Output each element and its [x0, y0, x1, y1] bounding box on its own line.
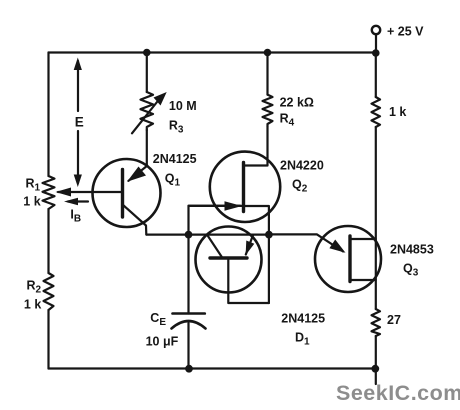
junction node top R3 — [143, 49, 151, 57]
wire left rail lower — [47, 310, 49, 369]
voltage arrow E line lower — [77, 131, 79, 183]
arrowhead Q3 gate — [329, 240, 345, 253]
wire R3 branch top — [146, 53, 148, 93]
diode-connected transistor D1 body — [196, 227, 262, 293]
svg-text:27: 27 — [387, 313, 401, 327]
junction node top R4 — [264, 49, 272, 57]
svg-text:10 μF: 10 μF — [146, 335, 179, 349]
wire node row (Q1 collector to node B) — [147, 234, 269, 236]
wire Q3 gate from node B — [269, 234, 343, 251]
wire R4 to Q2 drain — [244, 127, 268, 166]
arrowhead R3 variable — [154, 92, 167, 106]
wire CE branch lower — [187, 323, 189, 369]
transistor Q1 collector lead — [123, 205, 147, 235]
diode D1 collector lead — [207, 235, 222, 257]
junction node B — [265, 231, 273, 239]
svg-text:1 k: 1 k — [24, 298, 41, 312]
resistor 27 zigzag — [372, 309, 381, 336]
svg-text:+ 25 V: + 25 V — [387, 25, 424, 39]
arrowhead Q2 gate — [225, 201, 243, 210]
svg-text:10 M: 10 M — [169, 99, 197, 113]
svg-text:2N4125: 2N4125 — [281, 312, 325, 326]
wire left rail middle — [47, 209, 49, 273]
junction node A — [185, 231, 193, 239]
arrowhead E top — [74, 58, 82, 71]
arrowhead E bottom — [74, 175, 82, 188]
capacitor CE curved plate — [172, 321, 206, 329]
resistor R2 zigzag — [44, 273, 54, 310]
diode D1 emitter lead — [246, 235, 253, 255]
voltage arrow E line upper — [77, 61, 79, 111]
wire left rail upper — [47, 53, 49, 177]
wire right rail through Q3 — [375, 127, 377, 309]
transistor Q1 emitter lead — [129, 166, 148, 181]
svg-text:2N4125: 2N4125 — [153, 152, 197, 166]
diode D1 base bar — [210, 256, 247, 259]
wire D1 base return — [228, 259, 269, 303]
transistor Q3 drain lead — [350, 238, 376, 240]
wire bottom rail — [49, 367, 376, 369]
wire right rail bottom + stub — [375, 336, 377, 384]
transistor Q1 body — [93, 159, 161, 227]
svg-text:22 kΩ: 22 kΩ — [280, 96, 314, 110]
variable resistor R3 zigzag — [141, 92, 154, 130]
junction node bottom right — [371, 365, 379, 373]
arrowhead R1 wiper — [56, 188, 72, 197]
svg-text:2N4220: 2N4220 — [280, 159, 324, 173]
wire CE branch upper — [187, 235, 189, 314]
svg-text:SeekIC.com: SeekIC.com — [336, 381, 460, 405]
svg-text:E: E — [75, 115, 84, 130]
power terminal +25V — [372, 26, 380, 34]
transistor Q3 channel bar — [348, 236, 351, 282]
wire top rail — [49, 51, 376, 53]
svg-text:1 k: 1 k — [389, 105, 406, 119]
svg-text:1 k: 1 k — [23, 195, 40, 209]
transistor Q3 source lead — [350, 279, 376, 281]
arrowhead IB — [64, 198, 78, 205]
wire right rail upper — [375, 53, 377, 98]
resistor 1k right zigzag — [372, 97, 381, 127]
wire Q2 source drop / D1 right riser — [244, 206, 269, 303]
wire Q2 gate riser — [189, 206, 241, 235]
wire R4 branch top — [266, 53, 268, 95]
current arrow IB line — [68, 200, 88, 202]
capacitor CE top plate — [173, 312, 205, 315]
transistor Q3 body — [315, 226, 381, 292]
transistor Q1 base lead — [58, 191, 121, 193]
junction node bottom CE — [185, 365, 193, 373]
junction node top right — [372, 49, 380, 57]
variable resistor R3 arrow line — [132, 100, 159, 134]
wire R3 to Q1 emitter — [146, 130, 148, 166]
arrowhead D1 emitter — [246, 241, 255, 256]
arrowhead Q1 emitter — [127, 167, 146, 182]
resistor R1 zigzag — [43, 176, 55, 209]
transistor Q2 gate lead — [189, 205, 243, 207]
transistor Q2 channel bar — [242, 163, 245, 212]
svg-text:2N4853: 2N4853 — [390, 243, 434, 257]
resistor R4 zigzag — [263, 95, 273, 127]
transistor Q1 base bar — [121, 170, 124, 218]
wire terminal to top rail — [375, 35, 377, 53]
transistor Q2 body — [210, 152, 280, 222]
